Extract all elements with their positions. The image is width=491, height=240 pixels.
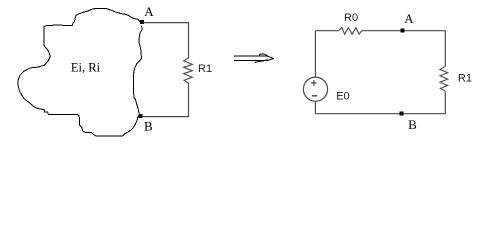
svg-text:A: A	[144, 4, 154, 19]
svg-text:E0: E0	[336, 90, 349, 102]
svg-text:R0: R0	[344, 12, 358, 24]
svg-text:R1: R1	[458, 73, 472, 85]
svg-text:B: B	[144, 119, 153, 134]
svg-text:B: B	[408, 117, 417, 132]
svg-text:A: A	[404, 11, 414, 26]
svg-text:R1: R1	[198, 63, 212, 75]
svg-text:Ei, Ri: Ei, Ri	[71, 61, 101, 75]
